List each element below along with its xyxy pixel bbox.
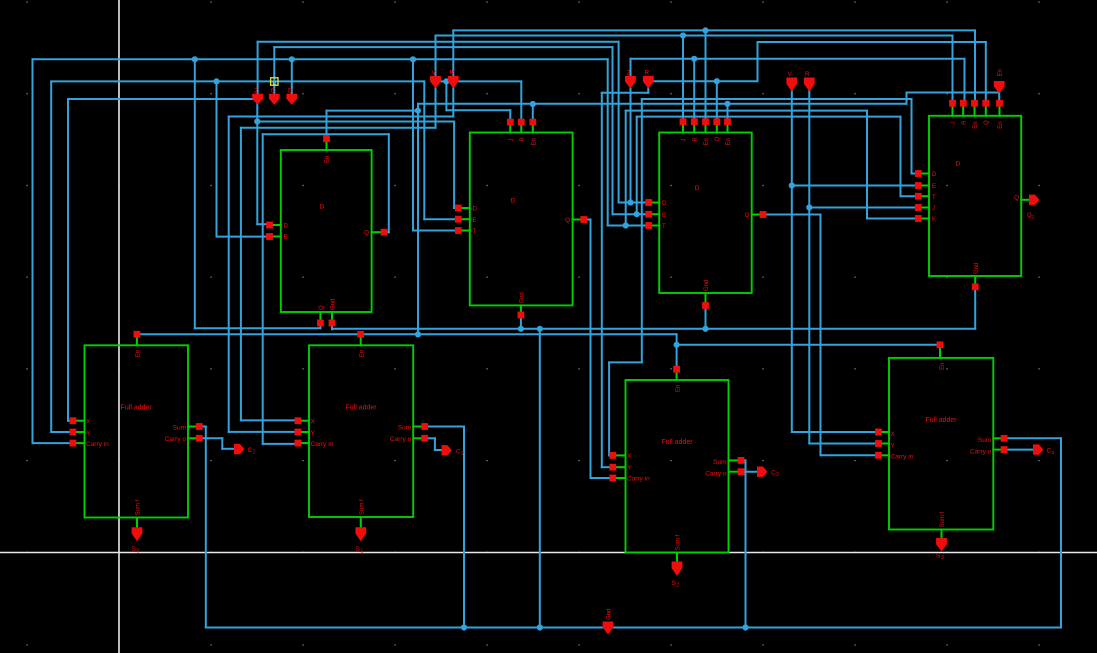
svg-text:V: V xyxy=(788,71,793,78)
svg-text:2: 2 xyxy=(677,583,680,589)
svg-text:Y: Y xyxy=(891,442,896,449)
svg-text:K: K xyxy=(932,217,936,223)
svg-text:Full adder: Full adder xyxy=(926,417,958,424)
svg-text:E: E xyxy=(473,218,477,224)
svg-text:Sum f: Sum f xyxy=(136,499,142,515)
svg-text:0: 0 xyxy=(137,549,140,555)
svg-text:Y: Y xyxy=(86,430,91,437)
svg-text:E: E xyxy=(662,213,666,219)
svg-text:Q: Q xyxy=(1014,195,1019,202)
svg-text:J: J xyxy=(682,139,688,142)
svg-text:Q: Q xyxy=(715,137,721,142)
svg-text:R: R xyxy=(450,70,455,77)
svg-text:Carry in: Carry in xyxy=(891,453,914,460)
svg-text:Carry o: Carry o xyxy=(970,448,992,455)
svg-text:En: En xyxy=(704,138,710,145)
svg-text:Sum f: Sum f xyxy=(676,534,682,550)
svg-text:Q: Q xyxy=(319,305,325,310)
svg-text:3: 3 xyxy=(941,555,944,561)
svg-text:R: R xyxy=(962,120,968,125)
svg-text:En: En xyxy=(973,121,979,128)
svg-text:J: J xyxy=(951,122,957,125)
svg-text:E: E xyxy=(284,235,288,241)
svg-text:1: 1 xyxy=(361,549,364,555)
svg-text:En: En xyxy=(325,156,331,163)
svg-text:Sum: Sum xyxy=(713,459,726,466)
svg-text:Carry o: Carry o xyxy=(165,436,187,443)
svg-text:Sum: Sum xyxy=(978,437,991,444)
svg-text:Y: Y xyxy=(311,430,316,437)
svg-text:3: 3 xyxy=(776,472,779,478)
svg-text:En: En xyxy=(359,350,365,357)
svg-text:Sum: Sum xyxy=(173,424,186,431)
svg-text:R: R xyxy=(520,137,526,142)
svg-text:En: En xyxy=(726,138,732,145)
svg-text:En: En xyxy=(136,350,142,357)
svg-text:R: R xyxy=(805,71,810,78)
svg-text:D: D xyxy=(288,88,293,95)
svg-text:Sum f: Sum f xyxy=(940,511,946,527)
svg-text:En: En xyxy=(531,138,537,145)
svg-text:T: T xyxy=(473,229,477,235)
svg-text:X: X xyxy=(891,431,896,438)
svg-text:Q: Q xyxy=(364,230,369,237)
svg-text:R: R xyxy=(645,70,650,77)
svg-text:2: 2 xyxy=(461,451,464,457)
svg-text:J: J xyxy=(509,139,515,142)
svg-text:T: T xyxy=(932,195,936,201)
svg-text:J: J xyxy=(932,206,935,212)
svg-text:1: 1 xyxy=(253,450,256,456)
svg-text:D: D xyxy=(320,204,325,211)
svg-text:En: En xyxy=(676,385,682,392)
svg-text:En: En xyxy=(940,363,946,370)
svg-text:Full adder: Full adder xyxy=(121,404,153,411)
svg-text:Carry o: Carry o xyxy=(705,471,727,478)
svg-text:D: D xyxy=(932,172,937,178)
svg-text:Carry in: Carry in xyxy=(86,441,109,448)
svg-text:R: R xyxy=(693,137,699,142)
svg-text:Gnd: Gnd xyxy=(607,609,613,620)
svg-text:Q: Q xyxy=(744,212,749,219)
svg-text:D: D xyxy=(956,161,961,168)
svg-text:T: T xyxy=(662,224,666,230)
svg-text:X: X xyxy=(311,418,316,425)
svg-text:Q: Q xyxy=(984,120,990,125)
svg-text:D: D xyxy=(511,198,516,205)
svg-text:Gnd: Gnd xyxy=(520,292,526,303)
svg-text:D: D xyxy=(473,207,478,213)
svg-text:D: D xyxy=(695,185,700,192)
svg-text:V: V xyxy=(432,70,437,77)
svg-text:En: En xyxy=(998,121,1004,128)
svg-text:u: u xyxy=(1052,450,1055,456)
svg-text:Gnd: Gnd xyxy=(331,299,337,310)
svg-text:D: D xyxy=(284,224,289,230)
svg-text:2: 2 xyxy=(627,70,631,77)
svg-text:Gnd: Gnd xyxy=(974,263,980,274)
svg-text:Carry in: Carry in xyxy=(627,476,650,483)
svg-text:X: X xyxy=(86,418,91,425)
svg-text:Carry in: Carry in xyxy=(311,441,334,448)
svg-text:E: E xyxy=(932,184,936,190)
svg-text:u: u xyxy=(272,79,276,86)
svg-text:Sum f: Sum f xyxy=(359,499,365,515)
svg-text:Y: Y xyxy=(627,465,632,472)
svg-text:Full adder: Full adder xyxy=(346,404,378,411)
svg-text:En: En xyxy=(998,69,1004,76)
svg-text:Full adder: Full adder xyxy=(661,439,693,446)
svg-text:Gnd: Gnd xyxy=(704,280,710,291)
svg-text:Sum: Sum xyxy=(398,424,411,431)
svg-text:D: D xyxy=(662,201,667,207)
svg-text:2: 2 xyxy=(254,88,258,95)
svg-text:Carry o: Carry o xyxy=(390,436,412,443)
svg-text:C: C xyxy=(271,88,276,95)
svg-text:X: X xyxy=(627,453,632,460)
svg-text:Q: Q xyxy=(565,217,570,224)
